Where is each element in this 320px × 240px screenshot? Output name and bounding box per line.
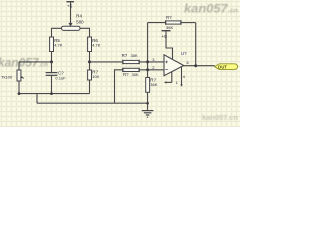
- svg-text:R?: R?: [166, 15, 172, 20]
- resistor R7 body (36K feedback top): [166, 20, 182, 24]
- potentiometer R4 wiper arrow: [69, 23, 72, 26]
- svg-text:36K: 36K: [150, 82, 157, 87]
- wire rail1 to rail2: [36, 94, 38, 104]
- wire pin7 to +5: [166, 31, 173, 60]
- potentiometer R4 body: [62, 26, 81, 30]
- resistor R9 body (30K horizontal bottom): [123, 68, 140, 72]
- wire R6 bottom to node B: [89, 52, 91, 62]
- svg-text:OUT: OUT: [218, 64, 228, 69]
- wire node B to R8: [90, 61, 123, 63]
- junction rail2 ground: [146, 102, 149, 105]
- wire R10 bottom to ground: [147, 92, 149, 110]
- svg-text:4.7K: 4.7K: [54, 43, 63, 48]
- svg-text:0.1uF: 0.1uF: [55, 75, 66, 80]
- junction pin3 line: [146, 60, 149, 63]
- wire thermistor bottom to rail: [18, 81, 20, 94]
- power +5 bar (top): [162, 30, 171, 32]
- wire feedback vertical left: [147, 23, 149, 78]
- junction rail1 left: [18, 92, 21, 95]
- wire pin5 down: [181, 67, 183, 86]
- wire R8 to opamp pin3: [140, 61, 164, 63]
- wire R9 left lead down: [115, 70, 123, 103]
- resistor R10 body (36K vertical): [146, 78, 150, 93]
- junction output node: [194, 64, 197, 67]
- junction node A (R5/C1): [50, 60, 53, 63]
- capacitor C1 plate top: [46, 72, 58, 73]
- svg-text:30K: 30K: [131, 53, 138, 58]
- wire pin1 arrow stub: [166, 81, 172, 83]
- watermark bottom-right: [202, 115, 238, 122]
- wire R3 bottom to rail: [89, 80, 91, 94]
- wire ground rail 1: [19, 93, 90, 95]
- wire pot right lead: [80, 28, 90, 37]
- svg-text:100: 100: [92, 74, 99, 79]
- svg-text:R?: R?: [122, 53, 128, 58]
- svg-text:+5: +5: [161, 34, 167, 40]
- watermark top-right: [184, 1, 238, 15]
- svg-text:R?: R?: [123, 72, 129, 77]
- ground symbol: [142, 111, 154, 118]
- svg-text:U?: U?: [181, 51, 187, 56]
- wire ground rail 2: [37, 102, 148, 104]
- svg-text:+5: +5: [67, 4, 73, 10]
- resistor R6 body: [88, 37, 92, 52]
- wire cap vertical top: [51, 62, 53, 72]
- wire cap vertical bottom: [51, 76, 53, 94]
- svg-text:4.7K: 4.7K: [92, 43, 101, 48]
- op-amp U1 triangle: [164, 55, 184, 76]
- svg-text:36K: 36K: [166, 25, 173, 30]
- wire pot left lead: [52, 28, 62, 37]
- output port pill: [215, 64, 238, 70]
- wire node B down to R3: [89, 62, 91, 70]
- resistor R8 body (30K horizontal top): [123, 60, 140, 64]
- wire feedback vertical right: [195, 23, 197, 66]
- resistor R5 body: [50, 37, 54, 52]
- wire feedback top horizontal right: [181, 22, 196, 24]
- svg-text:kan057.cn: kan057.cn: [202, 115, 238, 122]
- op-amp minus sign: [165, 69, 168, 71]
- op-amp plus sign: [165, 61, 168, 64]
- svg-text:4: 4: [183, 75, 185, 79]
- pin5 down arrowhead: [180, 84, 183, 86]
- junction pin2 line: [146, 68, 149, 71]
- resistor R3 body (100): [88, 70, 92, 80]
- wire R9 to opamp pin2: [140, 69, 164, 71]
- wire opamp output: [184, 65, 215, 67]
- svg-text:30K: 30K: [132, 72, 139, 77]
- svg-text:1: 1: [176, 81, 178, 85]
- pin1 left arrowhead: [164, 81, 166, 83]
- thermistor Rt body: [17, 70, 21, 81]
- wire feedback top horizontal left: [148, 22, 166, 24]
- junction node B (R6/R3): [88, 60, 91, 63]
- svg-text:R4: R4: [76, 14, 82, 19]
- watermark middle-left: [0, 56, 48, 70]
- junction rail1 cap: [50, 92, 53, 95]
- power +5 bar (left): [67, 1, 75, 3]
- svg-text:Tk100: Tk100: [1, 74, 13, 79]
- wire pin4 down: [171, 72, 173, 83]
- background grid: [0, 0, 240, 127]
- thermistor arrow: [20, 77, 24, 79]
- capacitor C1 plate bottom: [46, 75, 58, 76]
- wire +5 to pot wiper: [70, 2, 72, 23]
- svg-text:500: 500: [76, 19, 84, 24]
- wire node A down to thermistor: [18, 62, 20, 70]
- wire node A horizontal: [19, 61, 52, 63]
- wire R5 bottom to node A: [51, 52, 53, 63]
